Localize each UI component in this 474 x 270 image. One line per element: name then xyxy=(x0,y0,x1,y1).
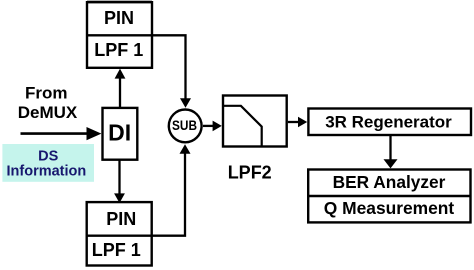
svg-text:BER Analyzer: BER Analyzer xyxy=(333,172,446,192)
label DS Information (highlighted) xyxy=(2,144,94,182)
wire: LPF2 to 3R Regenerator (arrow right) xyxy=(288,117,307,128)
svg-text:Q Measurement: Q Measurement xyxy=(324,198,455,218)
box DI xyxy=(103,108,138,160)
svg-text:PIN: PIN xyxy=(104,8,134,28)
svg-text:SUB: SUB xyxy=(172,118,197,133)
box BER Analyzer / Q Measurement xyxy=(308,170,470,223)
box PIN / LPF 1 (top stack) xyxy=(87,2,152,68)
box 3R Regenerator xyxy=(308,109,471,136)
wire: 3R Regenerator down into BER Analyzer (arrow down) xyxy=(384,136,398,168)
label From DeMUX xyxy=(18,84,78,122)
svg-text:3R Regenerator: 3R Regenerator xyxy=(325,112,452,131)
svg-text:LPF2: LPF2 xyxy=(228,162,272,182)
box LPF2 (low-pass filter symbol) xyxy=(223,96,287,147)
wire: From DeMUX into DI (arrow right) xyxy=(21,127,102,140)
wire: DI up into top LPF1 (arrow up) xyxy=(115,69,126,109)
svg-text:LPF 1: LPF 1 xyxy=(94,40,143,60)
node SUB (subtract circle) xyxy=(169,110,202,143)
svg-text:LPF 1: LPF 1 xyxy=(92,240,141,260)
svg-text:From: From xyxy=(25,84,68,103)
svg-text:Information: Information xyxy=(7,164,87,180)
wire: DI down into bottom PIN (arrow down) xyxy=(114,159,125,203)
box PIN / LPF 1 (bottom stack) xyxy=(87,202,152,265)
wire: top LPF1 right side to SUB input (arrow down) xyxy=(152,35,191,108)
wire: SUB to LPF2 (arrow right) xyxy=(203,121,222,132)
scan artifact above top box xyxy=(87,0,152,1)
svg-text:DI: DI xyxy=(108,120,131,146)
svg-text:DeMUX: DeMUX xyxy=(18,103,78,122)
svg-text:PIN: PIN xyxy=(106,209,136,229)
wire: bottom PIN right side to SUB input (arrow up) xyxy=(152,144,191,236)
svg-text:DS: DS xyxy=(38,148,58,164)
